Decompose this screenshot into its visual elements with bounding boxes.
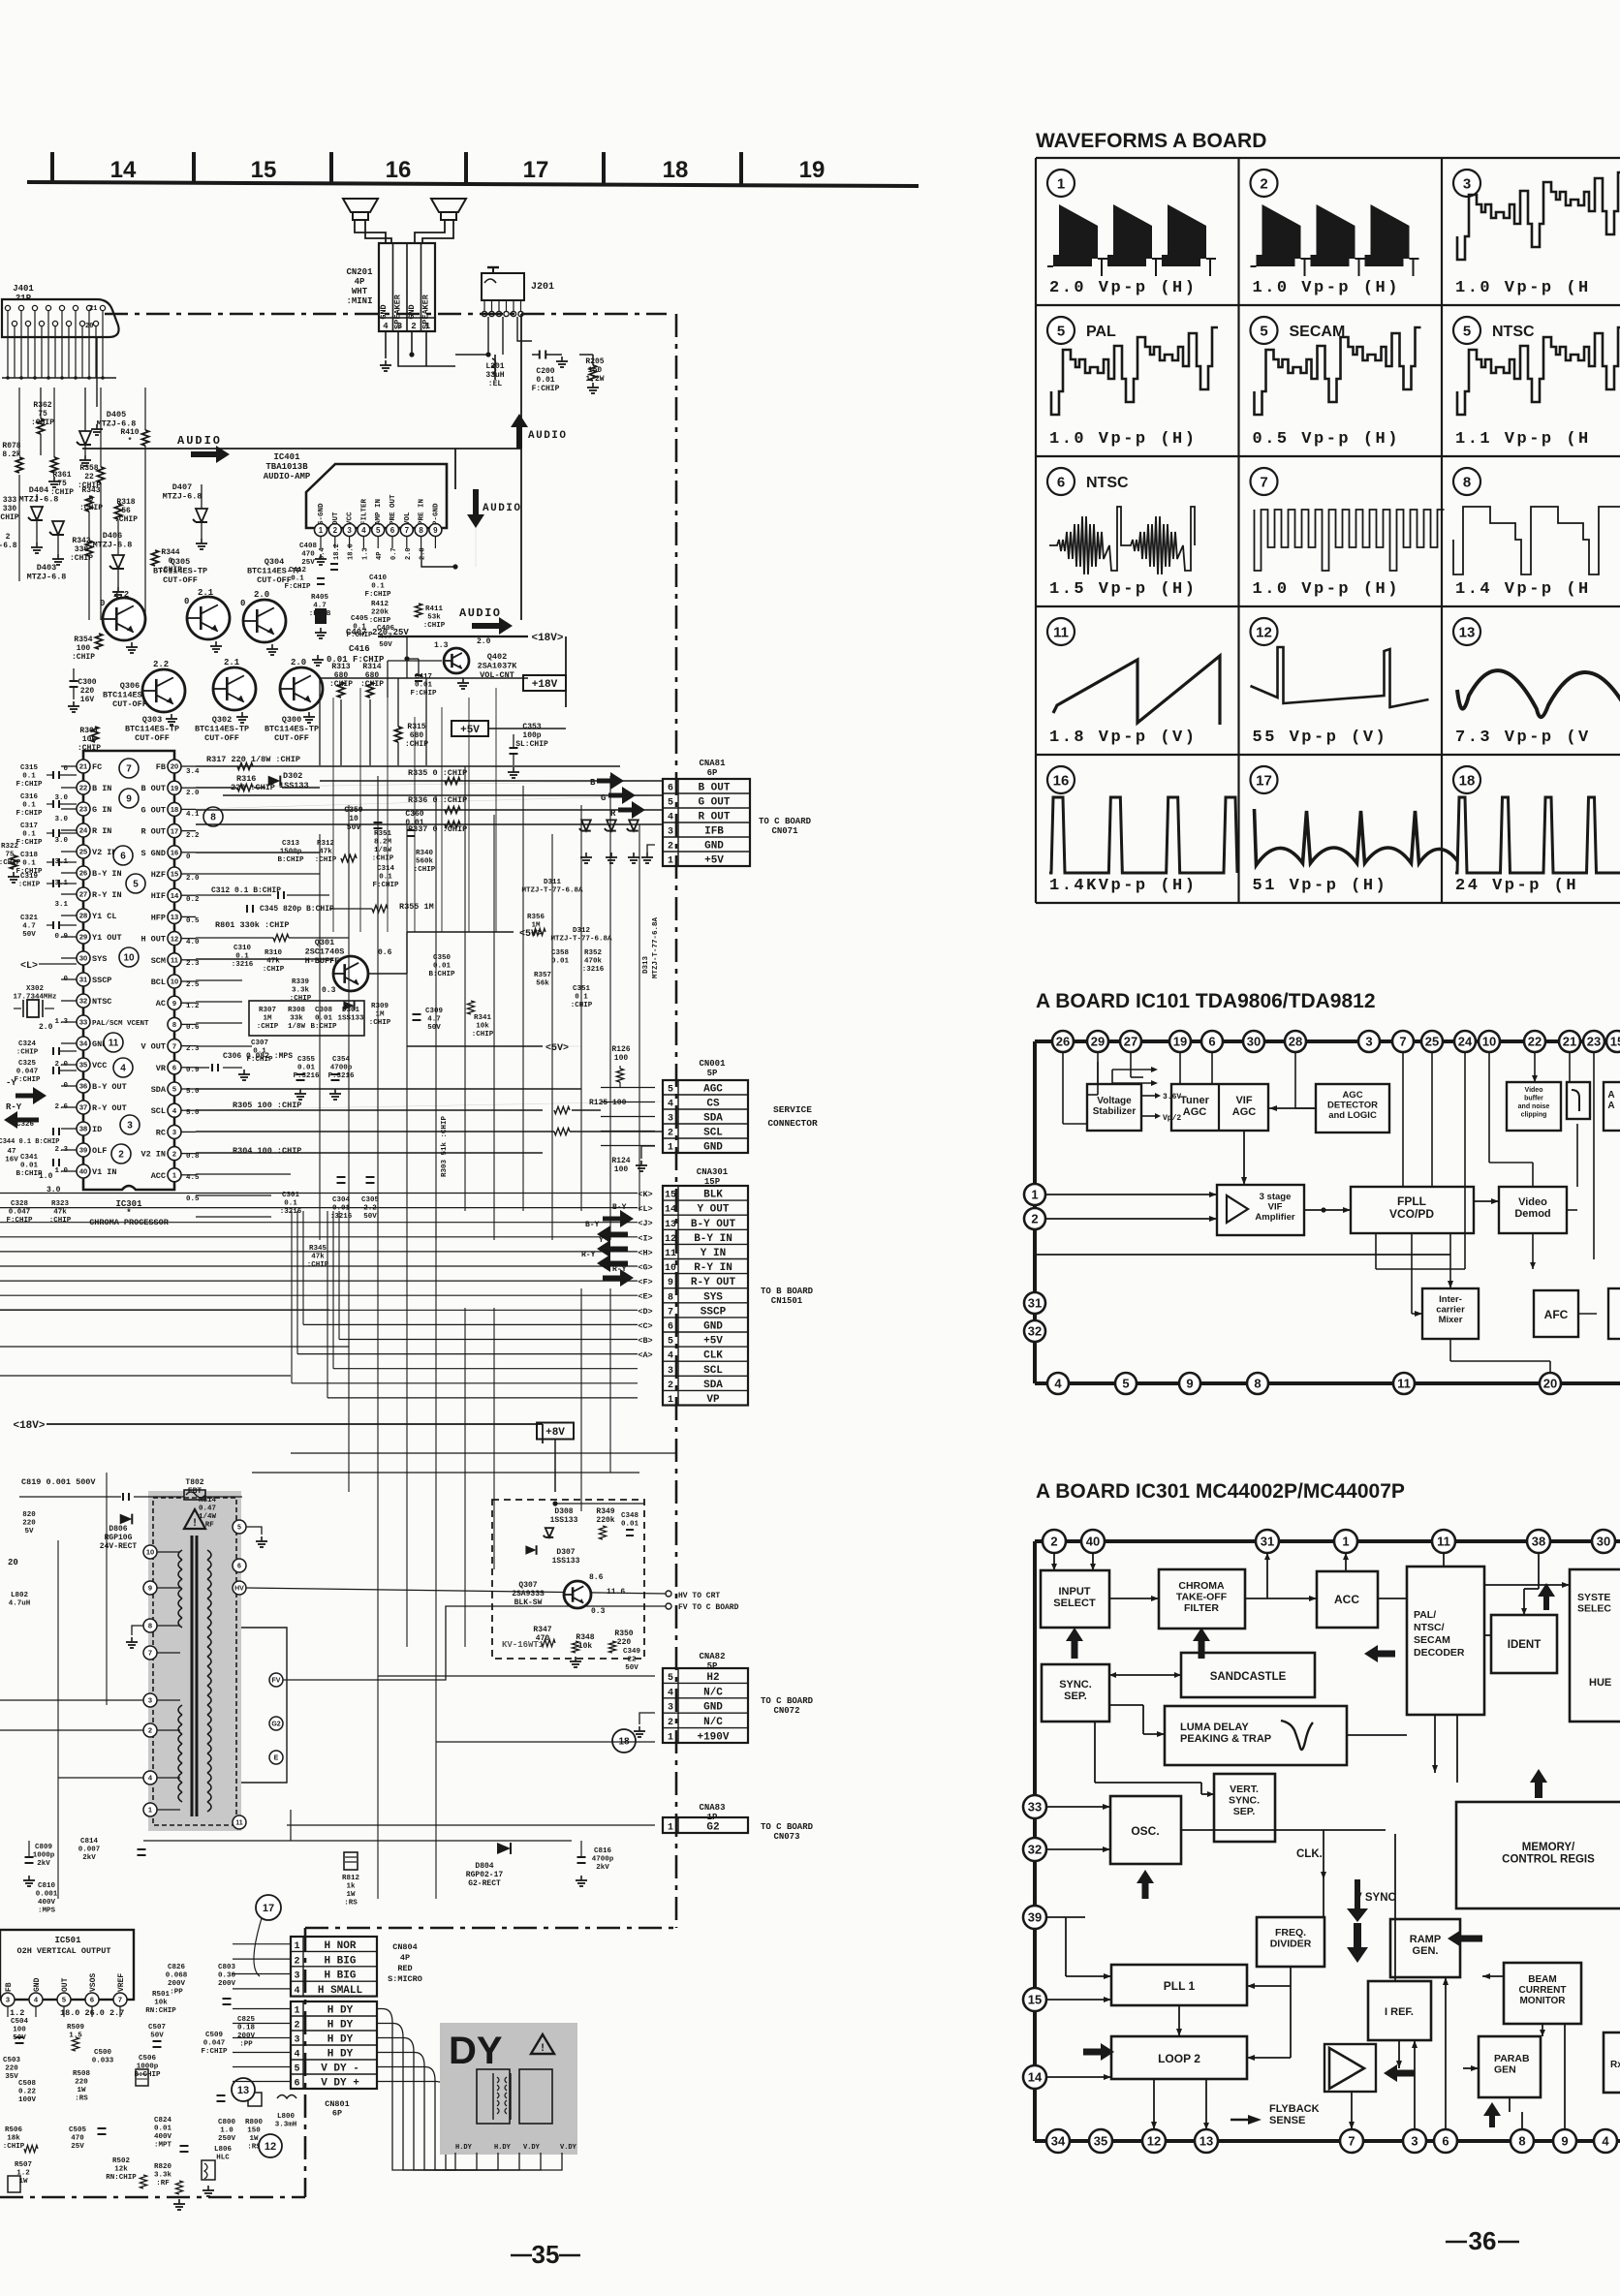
IC101 wires xyxy=(1062,1052,1064,1124)
connector CNA81 xyxy=(663,779,750,866)
flyback left coils xyxy=(178,1550,182,1560)
svg-text:B: B xyxy=(590,778,596,788)
svg-text:32: 32 xyxy=(1028,1843,1042,1857)
svg-text:28: 28 xyxy=(79,912,87,920)
svg-text:C819 0.001 500V: C819 0.001 500V xyxy=(21,1477,96,1487)
IC301 block RAMP GEN xyxy=(1390,1919,1460,1977)
svg-text:8202205V: 8202205V xyxy=(22,1511,36,1536)
svg-text:8: 8 xyxy=(1463,474,1471,490)
IC101 block Video buffer and noise clipping xyxy=(1507,1082,1561,1131)
svg-text:CNA30115P: CNA30115P xyxy=(697,1167,729,1187)
svg-text:SPEAKER: SPEAKER xyxy=(393,294,403,329)
svg-text:R313680:CHIP: R313680:CHIP xyxy=(329,663,353,689)
svg-text:R-Y: R-Y xyxy=(6,1102,22,1112)
svg-text:+5V: +5V xyxy=(460,725,480,736)
svg-text:5: 5 xyxy=(133,880,139,890)
svg-text:2: 2 xyxy=(294,1956,299,1967)
svg-text:C319:CHIP: C319:CHIP xyxy=(18,873,41,889)
svg-text:GND: GND xyxy=(703,1702,723,1714)
IC301 block LUMA DELAY PEAKING TRAP xyxy=(1165,1706,1347,1765)
diode D806 xyxy=(120,1514,133,1525)
svg-text:C306 0.082 :MPS: C306 0.082 :MPS xyxy=(223,1052,293,1061)
IC301 wire pin3 pin6 up xyxy=(1414,2040,1416,2129)
svg-text:2: 2 xyxy=(1050,1535,1057,1549)
svg-text:IC401TBA1013BAUDIO-AMP: IC401TBA1013BAUDIO-AMP xyxy=(264,452,311,481)
waveform cell 5 SECAM xyxy=(1251,317,1278,344)
svg-text:4: 4 xyxy=(120,1064,126,1074)
svg-text:4: 4 xyxy=(294,1986,299,1997)
zener D405 xyxy=(79,431,91,445)
svg-text:!: ! xyxy=(540,2043,546,2055)
svg-text:CN8016P: CN8016P xyxy=(325,2099,350,2119)
wire J401 pin21 down xyxy=(96,337,98,407)
svg-text:H DY: H DY xyxy=(327,2049,354,2061)
wire H OUT row xyxy=(196,958,333,960)
svg-text:R349220k: R349220k xyxy=(596,1507,614,1525)
svg-text:0: 0 xyxy=(100,599,105,608)
wire pin28 to agc detector xyxy=(1294,1052,1296,1108)
svg-text:19: 19 xyxy=(171,784,178,792)
svg-text:G OUT: G OUT xyxy=(698,797,730,809)
svg-text:3: 3 xyxy=(668,827,673,838)
IC101 block FPLL VCO/PD xyxy=(1351,1187,1474,1233)
svg-text:L8003.3mH: L8003.3mH xyxy=(275,2113,297,2129)
svg-text:2.6: 2.6 xyxy=(54,1103,68,1111)
svg-text:33: 33 xyxy=(79,1018,87,1027)
IC101 block Voltage Stabilizer xyxy=(1087,1084,1141,1131)
box D301 group xyxy=(249,1001,364,1036)
svg-text:Videobufferand noiseclipping: Videobufferand noiseclipping xyxy=(1518,1087,1550,1119)
svg-text:14: 14 xyxy=(110,157,137,183)
svg-text:39: 39 xyxy=(1028,1910,1042,1925)
wire pin24 down xyxy=(1464,1052,1466,1269)
wire HV to CRT xyxy=(246,1588,667,1594)
svg-text:VSOS: VSOS xyxy=(89,1973,98,1992)
svg-text:C5090.047F:CHIP: C5090.047F:CHIP xyxy=(201,2032,228,2056)
svg-text:C8100.001400V:MPS: C8100.001400V:MPS xyxy=(36,1882,58,1915)
svg-text:<L>: <L> xyxy=(20,961,38,972)
wire lower mesh xyxy=(1035,1254,1450,1256)
svg-text:OLF: OLF xyxy=(92,1146,107,1156)
IC301 wire vsync vertical dashed xyxy=(1394,1834,1396,1981)
IC101 partial right box xyxy=(1604,1082,1620,1131)
svg-text:2.1: 2.1 xyxy=(224,658,240,667)
svg-text:R305 100 :CHIP: R305 100 :CHIP xyxy=(233,1101,301,1110)
IC301 wire triangle down pin7 xyxy=(1351,2092,1353,2129)
resistor R343 xyxy=(85,496,92,512)
svg-text:2: 2 xyxy=(1031,1212,1038,1226)
svg-text:11: 11 xyxy=(665,1249,676,1259)
svg-text:55 Vp-p (V): 55 Vp-p (V) xyxy=(1253,729,1388,747)
svg-text:SCL: SCL xyxy=(151,1106,166,1116)
svg-text:3: 3 xyxy=(172,1128,176,1136)
wire B OUT row xyxy=(196,781,663,788)
IC301 wire left to vert sync sep xyxy=(1094,1722,1096,1783)
zener D312 xyxy=(607,820,616,830)
svg-text:R30110k:CHIP: R30110k:CHIP xyxy=(78,727,101,753)
svg-text:-Y: -Y xyxy=(6,1078,16,1088)
wire S GND row xyxy=(196,852,320,853)
resistor R342 xyxy=(85,541,92,556)
flyback right step outline xyxy=(241,1628,287,1783)
IC301 bottom pins xyxy=(1046,2129,1070,2153)
flyback right coils xyxy=(207,1550,211,1560)
svg-text:R-Y OUT: R-Y OUT xyxy=(92,1103,127,1113)
svg-text:HV: HV xyxy=(234,1586,244,1593)
svg-text:1.2: 1.2 xyxy=(10,2008,24,2018)
IC101 left rail wire xyxy=(1033,1041,1037,1383)
svg-text:10: 10 xyxy=(146,1548,154,1557)
svg-text:R124100: R124100 xyxy=(611,1157,630,1174)
svg-text:18.2: 18.2 xyxy=(333,543,341,560)
IC101 block Inter-carrier Mixer xyxy=(1422,1288,1479,1339)
svg-text:C344 0.1 B:CHIP: C344 0.1 B:CHIP xyxy=(0,1138,60,1146)
svg-text:3: 3 xyxy=(668,1114,673,1125)
svg-text:Y IN: Y IN xyxy=(701,1248,726,1259)
speaker SP1 xyxy=(343,199,378,212)
svg-text:6: 6 xyxy=(120,852,126,862)
IC301 wire decoder down arrows xyxy=(1434,1715,1436,1773)
waveform cell 17 xyxy=(1251,766,1278,793)
svg-text:SSCP: SSCP xyxy=(701,1306,727,1318)
svg-text:B OUT: B OUT xyxy=(698,783,730,794)
resistor R354 xyxy=(95,634,102,649)
svg-text:R35756k: R35756k xyxy=(534,972,551,988)
IC301 block PARAB GEN xyxy=(1479,2036,1541,2097)
svg-text:0.3: 0.3 xyxy=(591,1607,606,1616)
svg-text:3.4: 3.4 xyxy=(186,768,200,776)
IC301 wire input select to chroma filter xyxy=(1109,1598,1159,1599)
svg-text:AGCDETECTORand LOGIC: AGCDETECTORand LOGIC xyxy=(1327,1090,1378,1121)
wire RC V2IN ACC rows xyxy=(196,1173,291,1175)
svg-text:SANDCASTLE: SANDCASTLE xyxy=(1210,1671,1287,1683)
circled 12 xyxy=(259,2134,282,2157)
svg-text:<18V>: <18V> xyxy=(531,633,563,644)
svg-text:8: 8 xyxy=(1254,1377,1261,1391)
wire pin1 to VIF amp xyxy=(1045,1194,1217,1195)
IC301 block PLL 1 xyxy=(1111,1965,1247,2005)
resistor R205 xyxy=(589,365,596,381)
svg-text:C3550.01F:3216: C3550.01F:3216 xyxy=(293,1056,320,1080)
IC301 wire ramp to beam xyxy=(1482,1975,1504,1977)
svg-text:AC: AC xyxy=(156,999,166,1008)
svg-text:24: 24 xyxy=(1458,1035,1473,1049)
svg-text:13: 13 xyxy=(237,2085,249,2096)
svg-text:BCL: BCL xyxy=(151,977,166,987)
svg-text:Q4022SA1037KVOL-CNT: Q4022SA1037KVOL-CNT xyxy=(478,652,518,680)
svg-text:H.DY: H.DY xyxy=(494,2144,512,2152)
svg-text:SYS: SYS xyxy=(92,954,107,964)
IC301 arrow input select up xyxy=(1072,1639,1078,1659)
svg-text:R354100:CHIP: R354100:CHIP xyxy=(72,636,95,662)
svg-text:C8250.18200V:PP: C8250.18200V:PP xyxy=(237,2016,256,2049)
svg-text:<I>: <I> xyxy=(638,1233,652,1243)
svg-text:D313: D313 xyxy=(642,955,650,974)
wire to 18V xyxy=(378,636,528,637)
wire audio right vertical xyxy=(520,314,522,620)
svg-text:VideoDemod: VideoDemod xyxy=(1514,1196,1550,1220)
svg-text:3: 3 xyxy=(668,1366,673,1377)
svg-text:5: 5 xyxy=(668,1673,673,1684)
svg-text:29: 29 xyxy=(79,933,87,942)
svg-text:14: 14 xyxy=(171,891,179,900)
svg-text:11: 11 xyxy=(1053,624,1069,640)
svg-text:X30217.7344MHz: X30217.7344MHz xyxy=(13,985,56,1002)
svg-text:1.0: 1.0 xyxy=(54,1167,68,1175)
IC301 wire pin15 to PLL1 xyxy=(1046,1999,1111,2001)
svg-text:NTSC: NTSC xyxy=(1492,324,1535,340)
svg-text:Y1 CL: Y1 CL xyxy=(92,912,117,921)
svg-text:R125 100: R125 100 xyxy=(589,1099,627,1107)
svg-text:R352470k:3216: R352470k:3216 xyxy=(582,949,605,974)
svg-text:B-Y IN: B-Y IN xyxy=(694,1233,732,1245)
IC301 wire pin11 to decoder xyxy=(1443,1553,1445,1567)
svg-text:V DY +: V DY + xyxy=(321,2078,359,2090)
svg-text:R350220: R350220 xyxy=(614,1629,633,1647)
IC301 arrow luma left xyxy=(1376,1651,1395,1658)
svg-text:21: 21 xyxy=(79,762,87,771)
resistor R301 xyxy=(91,727,98,742)
svg-text:32: 32 xyxy=(79,997,87,1006)
svg-text:20: 20 xyxy=(8,1558,18,1567)
IC301 block INPUT SELECT xyxy=(1041,1570,1109,1628)
svg-text:3: 3 xyxy=(1463,175,1471,192)
svg-text:3: 3 xyxy=(6,1996,10,2004)
svg-text:2.0: 2.0 xyxy=(54,1061,68,1069)
IC301 wire freq divider to LOOP2 xyxy=(1290,1986,1292,2058)
svg-text:R126100: R126100 xyxy=(611,1045,630,1063)
waveform cell 6 NTSC xyxy=(1047,468,1075,495)
IC101 block 3 stage VIF Amplifier xyxy=(1217,1185,1304,1235)
svg-text:2: 2 xyxy=(668,1381,673,1391)
IC301 wire sync sep to luma delay xyxy=(1109,1704,1143,1706)
svg-text:R OUT: R OUT xyxy=(140,827,166,837)
svg-text:ID: ID xyxy=(92,1125,102,1134)
svg-text:D407MTZJ-6.8: D407MTZJ-6.8 xyxy=(163,482,202,502)
wire pin19 to tuner agc xyxy=(1179,1052,1181,1084)
wire CNA81 gnd xyxy=(647,845,655,853)
IC101 top rail wire xyxy=(1035,1039,1620,1043)
svg-text:1: 1 xyxy=(668,1395,673,1406)
svg-text:HFP: HFP xyxy=(151,913,166,922)
svg-text:OSC.: OSC. xyxy=(1131,1824,1159,1838)
svg-text:O2H VERTICAL OUTPUT: O2H VERTICAL OUTPUT xyxy=(17,1946,111,1956)
svg-text:B-Y OUT: B-Y OUT xyxy=(691,1219,736,1230)
svg-text:1: 1 xyxy=(294,1941,299,1952)
svg-text:AUDIO: AUDIO xyxy=(483,503,522,514)
svg-text:I REF.: I REF. xyxy=(1385,2006,1414,2018)
svg-text:27: 27 xyxy=(1124,1035,1137,1049)
svg-text:7: 7 xyxy=(118,1996,122,2004)
circled 8 outside IC301 xyxy=(203,807,223,826)
svg-text:Q305BTC114ES-TPCUT-OFF: Q305BTC114ES-TPCUT-OFF xyxy=(153,557,207,585)
svg-text:3.1: 3.1 xyxy=(54,858,68,866)
svg-text:!: ! xyxy=(192,1518,199,1530)
svg-text:2.0: 2.0 xyxy=(254,590,269,600)
flyback core lines xyxy=(191,1536,194,1816)
svg-text:5: 5 xyxy=(668,1085,673,1096)
svg-text:11: 11 xyxy=(171,956,178,965)
svg-text:C5080.22100V: C5080.22100V xyxy=(18,2080,37,2104)
svg-text:C3580.01: C3580.01 xyxy=(551,949,570,966)
IC301 wire ident up arrows xyxy=(1543,1595,1549,1610)
grid ruler ticks xyxy=(50,152,54,184)
svg-text:C3131500pB:CHIP: C3131500pB:CHIP xyxy=(277,840,304,864)
svg-text:1: 1 xyxy=(294,2006,299,2017)
IC301 amp triangle xyxy=(1329,2048,1364,2089)
svg-text:5: 5 xyxy=(376,526,381,535)
svg-text:10: 10 xyxy=(1482,1035,1496,1049)
audio up arrow xyxy=(516,425,522,449)
svg-text:Y OUT: Y OUT xyxy=(697,1204,729,1216)
svg-text:<D>: <D> xyxy=(638,1307,652,1317)
IC101 filter box xyxy=(1567,1082,1590,1119)
svg-text:+5V: +5V xyxy=(703,1336,723,1348)
svg-text:19: 19 xyxy=(799,157,826,183)
waveform grid frame xyxy=(1036,157,1620,159)
svg-text:PRE IN: PRE IN xyxy=(419,499,426,525)
svg-text:R410*: R410* xyxy=(120,428,139,446)
svg-text:8: 8 xyxy=(419,526,423,535)
IC301 wire pin32 to osc xyxy=(1046,1848,1110,1850)
svg-text:CN2014PWHT:MINI: CN2014PWHT:MINI xyxy=(346,267,373,306)
svg-text:0.6: 0.6 xyxy=(186,1024,200,1032)
svg-text:11: 11 xyxy=(235,1820,243,1827)
svg-text:2.0: 2.0 xyxy=(186,790,200,797)
svg-text:R3518.2M1/8W:CHIP: R3518.2M1/8W:CHIP xyxy=(372,830,394,863)
svg-text:CN8044PREDS:MICRO: CN8044PREDS:MICRO xyxy=(388,1942,422,1984)
svg-text:VREF: VREF xyxy=(117,1973,126,1992)
svg-text:G2: G2 xyxy=(706,1822,719,1834)
svg-text:Y1 OUT: Y1 OUT xyxy=(92,933,122,943)
svg-text:0.9: 0.9 xyxy=(54,933,68,941)
IC101 block Video Demod xyxy=(1499,1187,1567,1233)
wire flyback pin8 gnd xyxy=(132,1626,143,1635)
svg-text:AUDIO: AUDIO xyxy=(528,430,568,442)
wire SCM BCL AC rows xyxy=(196,979,242,981)
svg-text:BLK: BLK xyxy=(703,1190,723,1201)
svg-text:PRE OUT: PRE OUT xyxy=(389,494,397,525)
svg-text:<C>: <C> xyxy=(638,1321,652,1331)
svg-text:2-6.8: 2-6.8 xyxy=(0,533,17,550)
svg-text:35: 35 xyxy=(532,2240,560,2269)
svg-text:*: * xyxy=(126,1208,131,1218)
svg-text:10: 10 xyxy=(171,977,178,986)
svg-text:14: 14 xyxy=(665,1205,676,1216)
svg-text:31: 31 xyxy=(1028,1296,1042,1311)
svg-text:30: 30 xyxy=(1597,1535,1610,1549)
svg-text:PAL/NTSC/SECAMDECODER: PAL/NTSC/SECAMDECODER xyxy=(1414,1609,1465,1659)
svg-text:1.3: 1.3 xyxy=(434,641,449,650)
waveform cell 16 xyxy=(1047,766,1075,793)
svg-text:C3170.1F:CHIP: C3170.1F:CHIP xyxy=(16,822,43,847)
svg-text:SYSTESELEC: SYSTESELEC xyxy=(1577,1592,1611,1615)
svg-text:4: 4 xyxy=(668,1688,673,1698)
svg-text:C3140.1F:CHIP: C3140.1F:CHIP xyxy=(372,865,399,889)
svg-text:+8V: +8V xyxy=(545,1427,565,1439)
svg-text:1.3: 1.3 xyxy=(54,1018,68,1026)
svg-text:2: 2 xyxy=(294,2021,299,2032)
svg-text:RAMPGEN.: RAMPGEN. xyxy=(1410,1934,1441,1957)
wire SDA SCL rows to service connector xyxy=(196,1088,581,1090)
IC301 block FREQ DIVIDER xyxy=(1257,1917,1324,1967)
power +8V box xyxy=(537,1423,574,1440)
svg-text:FREQ.DIVIDER: FREQ.DIVIDER xyxy=(1270,1927,1312,1950)
svg-text:4: 4 xyxy=(668,1100,673,1110)
IC301 block VERT SYNC SEP xyxy=(1214,1774,1275,1842)
svg-text:9: 9 xyxy=(1561,2134,1568,2149)
resistor R314 xyxy=(366,682,373,698)
svg-text:R801 330k :CHIP: R801 330k :CHIP xyxy=(215,920,290,930)
svg-text:3 stageVIFAmplifier: 3 stageVIFAmplifier xyxy=(1255,1192,1294,1223)
svg-text:31: 31 xyxy=(1261,1535,1274,1549)
svg-text:6: 6 xyxy=(1208,1035,1215,1049)
svg-text:TO C BOARDCN073: TO C BOARDCN073 xyxy=(761,1822,814,1842)
svg-text:GND: GND xyxy=(33,1977,42,1992)
wire pin25 to FPLL xyxy=(1431,1052,1433,1187)
svg-text:1.0 Vp-p (H: 1.0 Vp-p (H xyxy=(1455,279,1591,297)
svg-text:R304 100 :CHIP: R304 100 :CHIP xyxy=(233,1146,301,1156)
svg-text:FB: FB xyxy=(5,1982,14,1992)
wire pin7 to FPLL xyxy=(1402,1052,1404,1187)
svg-text:C4100.1F:CHIP: C4100.1F:CHIP xyxy=(364,574,391,599)
svg-text:<G>: <G> xyxy=(638,1263,652,1273)
svg-text:4: 4 xyxy=(383,322,389,331)
svg-text:AA: AA xyxy=(1607,1090,1614,1111)
IC301 partial Rx box xyxy=(1604,2032,1620,2093)
IC301 wire clk down to freq divider xyxy=(1323,1834,1324,1917)
svg-text:7.3 Vp-p (V: 7.3 Vp-p (V xyxy=(1455,729,1591,747)
transistor Q402 xyxy=(444,648,469,673)
svg-text:VP: VP xyxy=(706,1394,720,1406)
diode D302 xyxy=(268,776,281,787)
svg-text:3: 3 xyxy=(294,1971,299,1982)
svg-text:R32275:CHIP: R32275:CHIP xyxy=(0,843,21,867)
svg-text:5: 5 xyxy=(172,1085,176,1094)
svg-text:C326: C326 xyxy=(16,1121,35,1129)
svg-text:20: 20 xyxy=(171,762,178,771)
IC301 wire memory register down arrow xyxy=(1347,1908,1368,1922)
IC301 wire parab gen to pin8 xyxy=(1509,2097,1511,2112)
IC301 wire parab arrow xyxy=(1489,2114,1495,2127)
wire CN001 gnd xyxy=(641,1146,655,1159)
IC301 block I REF xyxy=(1368,1981,1431,2040)
svg-text:19: 19 xyxy=(1173,1035,1187,1049)
J201 pins xyxy=(482,311,486,316)
svg-text:12: 12 xyxy=(1147,2134,1161,2149)
svg-text:3: 3 xyxy=(347,526,352,535)
svg-text:4: 4 xyxy=(1602,2134,1609,2149)
svg-text:S-GND: S-GND xyxy=(318,503,326,525)
capacitor C200 xyxy=(539,351,541,359)
IC301 left rail wire xyxy=(1033,1541,1037,2141)
IC301 block SYSTEM SELECT partial xyxy=(1570,1569,1620,1722)
zener D404 xyxy=(31,507,43,520)
waveform cell 12 xyxy=(1251,618,1278,645)
wire 5V mid row xyxy=(407,1045,543,1047)
svg-text:C3510.1:CHIP: C3510.1:CHIP xyxy=(571,985,593,1009)
svg-text:3: 3 xyxy=(127,1121,133,1132)
connector CN001 xyxy=(663,1080,748,1153)
svg-text:4: 4 xyxy=(1054,1377,1062,1391)
svg-text:C8140.0072kV: C8140.0072kV xyxy=(78,1838,101,1862)
svg-text:C416: C416 xyxy=(349,644,370,654)
IC301 top rail wire xyxy=(1035,1539,1620,1543)
wire hfp row xyxy=(543,1045,581,1047)
svg-text:1.4 Vp-p (H: 1.4 Vp-p (H xyxy=(1455,580,1591,599)
svg-text:<A>: <A> xyxy=(638,1350,652,1360)
svg-text:C3250.047F:CHIP: C3250.047F:CHIP xyxy=(14,1060,41,1084)
